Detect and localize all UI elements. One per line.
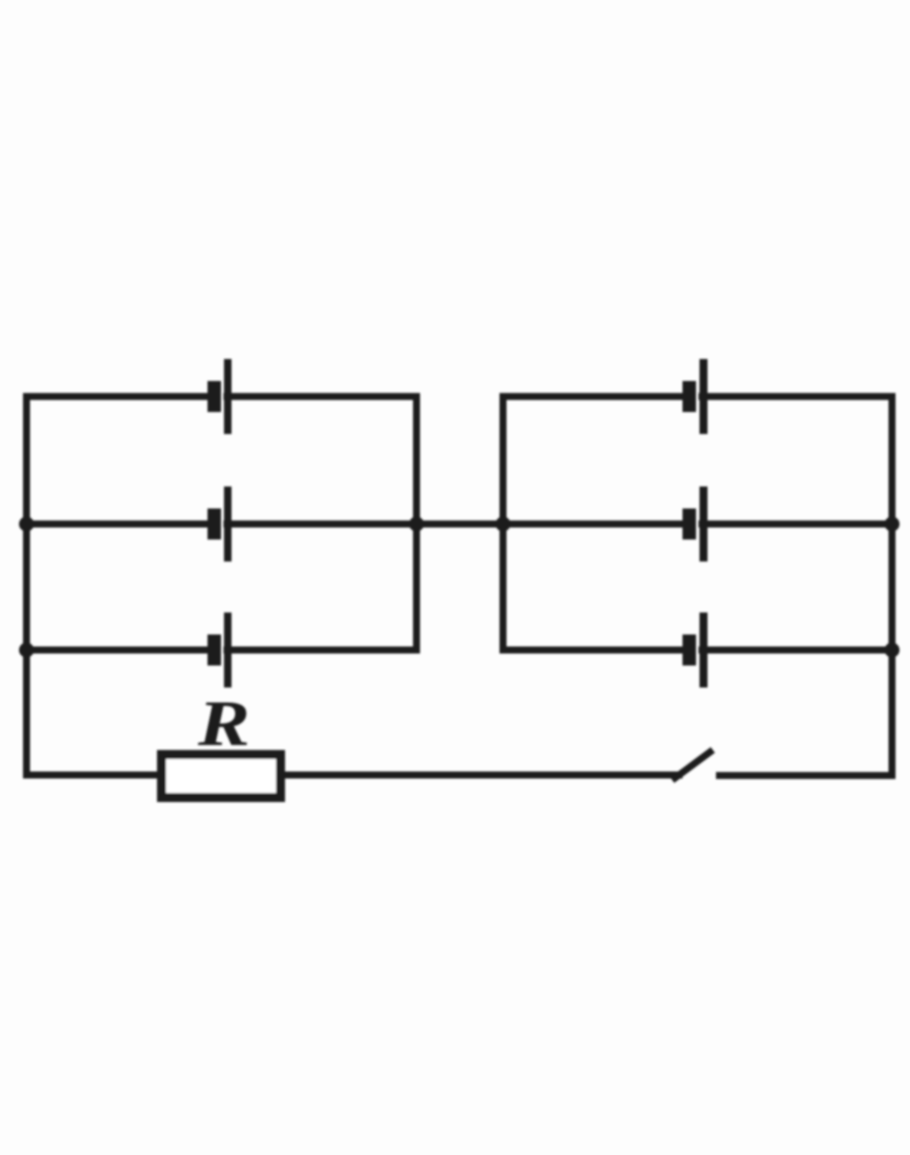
wire: right bank top row, left of cell bbox=[503, 393, 687, 400]
wire: middle row from left cell through inter-bank link to right cell bbox=[227, 521, 687, 528]
battery cell top-right: thin long positive plate bbox=[700, 359, 708, 434]
junction node: left vertical / middle row bbox=[19, 517, 34, 532]
battery cell top-right: thick negative plate bbox=[683, 381, 697, 412]
wire: left outer vertical bbox=[23, 397, 30, 776]
wire: left bank bottom row, left of cell bbox=[27, 647, 213, 654]
junction node: left bank right vertical / middle row bbox=[409, 517, 424, 532]
battery cell top-left: thin long positive plate bbox=[224, 359, 232, 434]
battery cell top-left: thick negative plate bbox=[208, 381, 222, 412]
resistor R body bbox=[162, 755, 281, 798]
junction node: right vertical / middle row bbox=[885, 517, 900, 532]
wire: right bank bottom row, right of cell bbox=[702, 647, 892, 654]
junction node: right vertical / bottom row bbox=[885, 643, 900, 658]
battery cell bottom-right: thin long positive plate bbox=[700, 613, 708, 688]
wire: left bank top row, left of cell bbox=[27, 393, 213, 400]
battery cell bottom-left: thin long positive plate bbox=[224, 613, 232, 688]
wire: bottom row, switch to right corner bbox=[720, 772, 893, 779]
svg-text:R: R bbox=[197, 688, 250, 760]
wire: bottom row, left of resistor bbox=[27, 772, 161, 779]
wire: left bank middle row, left of cell bbox=[27, 521, 213, 528]
wire: bottom row, resistor to switch bbox=[285, 772, 679, 779]
wire: right bank left vertical bbox=[500, 397, 507, 651]
junction node: right bank left vertical / middle row bbox=[496, 517, 511, 532]
battery cell bottom-right: thick negative plate bbox=[683, 635, 697, 666]
wire: right bank bottom row, left of cell bbox=[503, 647, 687, 654]
battery cell middle-left: thick negative plate bbox=[208, 509, 222, 540]
wire: right outer vertical bbox=[889, 397, 896, 776]
wire: right bank middle row, right of cell bbox=[702, 521, 892, 528]
battery cell bottom-left: thick negative plate bbox=[208, 635, 222, 666]
junction node: left vertical / bottom row bbox=[19, 643, 34, 658]
battery cell middle-left: thin long positive plate bbox=[224, 487, 232, 562]
battery cell middle-right: thick negative plate bbox=[683, 509, 697, 540]
wire: left bank top row, right of cell bbox=[227, 393, 417, 400]
wire: left bank bottom row, right of cell bbox=[227, 647, 417, 654]
wire: left bank right vertical bbox=[413, 397, 420, 651]
switch lever (open) bbox=[675, 752, 710, 778]
battery cell middle-right: thin long positive plate bbox=[700, 487, 708, 562]
wire: right bank top row, right of cell bbox=[702, 393, 892, 400]
